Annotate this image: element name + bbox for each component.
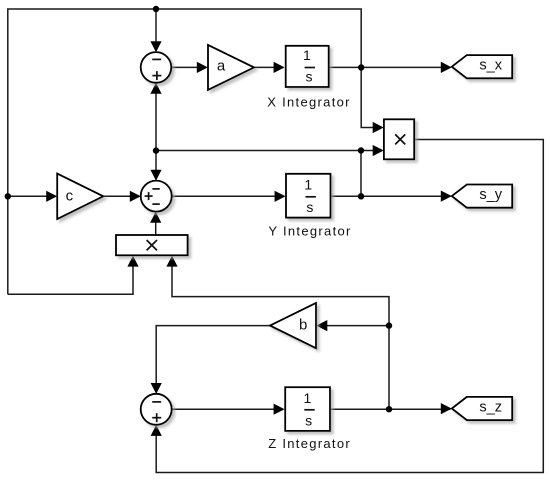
- svg-text:Z Integrator: Z Integrator: [268, 436, 351, 451]
- svg-text:s_z: s_z: [479, 399, 502, 415]
- svg-text:1: 1: [304, 390, 312, 406]
- svg-text:Y Integrator: Y Integrator: [268, 223, 351, 238]
- svg-text:a: a: [217, 58, 226, 75]
- svg-text:X Integrator: X Integrator: [267, 94, 351, 109]
- svg-text:s: s: [306, 199, 313, 215]
- svg-text:1: 1: [304, 176, 312, 192]
- svg-text:b: b: [299, 317, 307, 334]
- svg-text:c: c: [66, 187, 74, 204]
- svg-text:1: 1: [303, 47, 311, 63]
- svg-text:s_y: s_y: [479, 187, 502, 203]
- svg-text:s: s: [306, 69, 313, 85]
- svg-text:s: s: [305, 412, 312, 428]
- svg-text:s_x: s_x: [479, 58, 502, 74]
